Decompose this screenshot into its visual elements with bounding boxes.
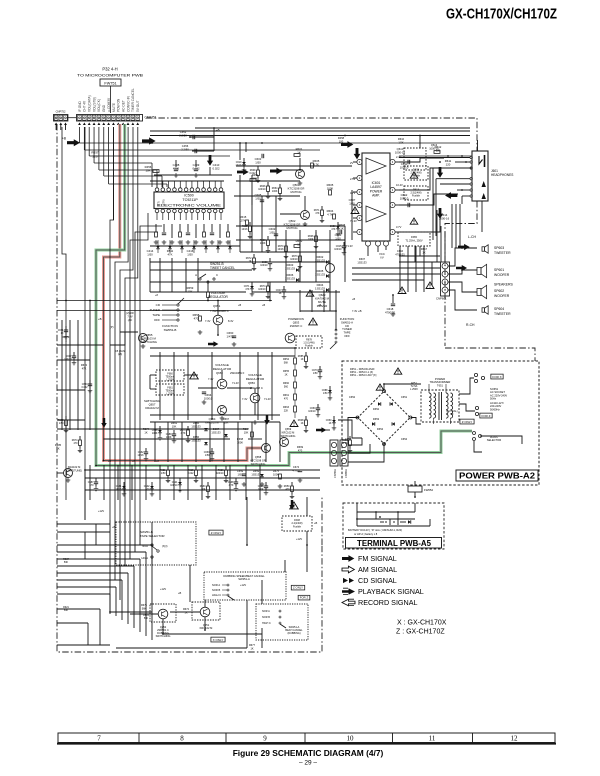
svg-text:CH7 4V: CH7 4V — [83, 100, 87, 112]
svg-text:Z : GX-CH170Z: Z : GX-CH170Z — [396, 629, 445, 636]
svg-text:4.7K: 4.7K — [181, 432, 186, 435]
svg-text:470: 470 — [146, 488, 151, 491]
svg-text:50Hz: 50Hz — [490, 397, 497, 401]
svg-text:10.4V: 10.4V — [396, 183, 403, 187]
svg-text:I/V: I/V — [380, 256, 384, 260]
svg-text:SP603: SP603 — [494, 246, 504, 250]
svg-text:71.4V: 71.4V — [232, 381, 239, 385]
svg-text:47K: 47K — [331, 228, 336, 231]
svg-text:D653: D653 — [373, 417, 380, 421]
svg-text:1K: 1K — [144, 430, 147, 434]
svg-text:100: 100 — [339, 139, 344, 143]
svg-text:100/10: 100/10 — [170, 484, 178, 487]
svg-text:C652: C652 — [349, 395, 356, 399]
svg-text:7: 7 — [97, 735, 101, 743]
svg-text:R610: R610 — [398, 137, 405, 141]
svg-text:7.4V: 7.4V — [205, 319, 211, 323]
svg-text:TAPE SELECTOR: TAPE SELECTOR — [140, 534, 165, 538]
svg-text:2.5V: 2.5V — [350, 177, 356, 181]
svg-text:0.022: 0.022 — [213, 167, 220, 171]
svg-text:PLAYBACK SIGNAL: PLAYBACK SIGNAL — [358, 587, 424, 596]
svg-text:100K: 100K — [152, 432, 158, 435]
svg-text:71.3V: 71.3V — [346, 244, 353, 248]
svg-text:50K: 50K — [64, 609, 69, 612]
svg-text:C: C — [216, 273, 218, 277]
svg-text:4.7K: 4.7K — [327, 213, 333, 217]
svg-text:BATTERY DC12V [ “D” size ( UM/: BATTERY DC12V [ “D” size ( UM/SUM-1, R20… — [348, 528, 402, 532]
svg-text:560: 560 — [284, 385, 289, 388]
svg-text:56K: 56K — [284, 361, 289, 364]
svg-text:4.7V: 4.7V — [350, 191, 356, 195]
svg-text:F665: F665 — [411, 235, 417, 239]
svg-text:FW751: FW751 — [104, 81, 116, 85]
svg-text:+B: +B — [98, 317, 102, 321]
svg-text:AMP.: AMP. — [372, 194, 380, 198]
svg-text:Q659: Q659 — [285, 427, 292, 431]
svg-text:CNB651: CNB651 — [345, 468, 348, 478]
svg-text:TIMER CANCEL: TIMER CANCEL — [131, 88, 135, 112]
svg-text:470: 470 — [298, 448, 303, 452]
svg-text:SPEAKERS: SPEAKERS — [494, 283, 514, 287]
svg-text:+B: +B — [352, 298, 355, 301]
svg-text:100K: 100K — [260, 242, 266, 245]
svg-text:71.3V: 71.3V — [350, 219, 357, 223]
svg-text:1/50: 1/50 — [313, 372, 318, 375]
svg-text:D651 – D654 0-34/7 [X]: D651 – D654 0-34/7 [X] — [350, 374, 377, 377]
svg-text:10K: 10K — [201, 488, 206, 491]
svg-text:100/10: 100/10 — [216, 472, 224, 475]
svg-text:FW652: FW652 — [424, 488, 433, 492]
svg-text:220: 220 — [92, 154, 97, 158]
svg-text:R617: R617 — [421, 247, 428, 251]
svg-text:1/50: 1/50 — [255, 161, 261, 165]
svg-text:1K: 1K — [422, 250, 425, 254]
svg-text:T.F: T.F — [450, 413, 454, 416]
svg-text:100/10: 100/10 — [334, 248, 342, 251]
svg-text:POWER/ION: POWER/ION — [288, 317, 304, 321]
svg-text:Q853: Q853 — [248, 381, 255, 385]
svg-text:+12V: +12V — [98, 509, 104, 513]
svg-text:R458: R458 — [338, 136, 345, 140]
svg-text:–: – — [444, 280, 446, 284]
svg-text:2SD667-C: 2SD667-C — [290, 324, 303, 328]
svg-text:u-COM3V: u-COM3V — [107, 97, 111, 112]
svg-text:Fusible: Fusible — [412, 175, 421, 178]
svg-text:Z ONLY: Z ONLY — [293, 586, 303, 590]
svg-text:4.7K: 4.7K — [229, 484, 234, 487]
svg-text:+B: +B — [62, 137, 66, 141]
svg-text:SWITCHING: SWITCHING — [251, 462, 266, 466]
svg-text:7.4V: 7.4V — [242, 397, 248, 401]
svg-text:3.7V: 3.7V — [396, 225, 402, 229]
svg-text:SWITCHING: SWITCHING — [281, 434, 296, 438]
svg-text:NOR A: NOR A — [262, 610, 270, 613]
svg-text:7.4V: 7.4V — [127, 314, 133, 318]
svg-text:TAPE: TAPE — [152, 313, 160, 317]
svg-text:(AC: (AC — [128, 318, 133, 322]
svg-text:(23): (23) — [118, 353, 122, 356]
svg-text:71.4V: 71.4V — [264, 397, 271, 401]
svg-text:(X)(I): (X)(I) — [162, 545, 168, 548]
svg-text:C616: C616 — [397, 249, 404, 253]
svg-text:Q653: Q653 — [293, 321, 300, 325]
svg-text:2.2/50: 2.2/50 — [179, 134, 187, 138]
svg-text:SW251-A: SW251-A — [238, 577, 250, 581]
svg-text:R674: R674 — [143, 427, 150, 431]
svg-text:X : GX-CH170X: X : GX-CH170X — [397, 620, 447, 627]
svg-text:9: 9 — [263, 735, 267, 743]
svg-text:C654: C654 — [401, 437, 408, 441]
svg-text:1SS133: 1SS133 — [357, 260, 367, 264]
svg-text:8: 8 — [180, 735, 184, 743]
svg-text:CD SIGNAL: CD SIGNAL — [358, 576, 397, 585]
svg-text:ELECTRONIC VOLUME: ELECTRONIC VOLUME — [157, 203, 221, 208]
svg-text:C651: C651 — [401, 395, 408, 399]
svg-text:Fusible: Fusible — [305, 345, 313, 348]
svg-text:10/16: 10/16 — [278, 248, 285, 251]
svg-text:R685: R685 — [55, 443, 62, 447]
svg-text:D652: D652 — [373, 407, 380, 411]
svg-text:HIGH: HIGH — [142, 556, 149, 560]
svg-text:CNP651: CNP651 — [334, 468, 337, 478]
svg-text:1K: 1K — [250, 647, 253, 650]
svg-text:100/10: 100/10 — [204, 397, 213, 401]
svg-text:+B: +B — [262, 304, 265, 307]
svg-text:IF GND: IF GND — [78, 101, 82, 112]
svg-text:– 29 –: – 29 – — [299, 760, 317, 767]
svg-text:WOOFER: WOOFER — [494, 273, 510, 277]
svg-text:+: + — [444, 264, 446, 268]
svg-text:D607: D607 — [359, 257, 366, 261]
svg-text:0.022: 0.022 — [82, 386, 89, 389]
svg-text:SELECTOR: SELECTOR — [487, 438, 501, 442]
svg-text:HIGH C: HIGH C — [212, 593, 221, 597]
svg-text:R669: R669 — [297, 445, 304, 449]
svg-text:10K: 10K — [172, 424, 177, 428]
svg-text:CONVC-IN: CONVC-IN — [126, 96, 130, 112]
svg-text:R672: R672 — [81, 363, 88, 367]
svg-text:470: 470 — [74, 442, 79, 445]
svg-text:1K: 1K — [56, 446, 59, 450]
svg-text:22K: 22K — [284, 409, 289, 412]
svg-text:50K: 50K — [64, 561, 69, 564]
svg-text:100/10: 100/10 — [258, 288, 266, 291]
svg-text:470: 470 — [286, 488, 291, 491]
svg-text:VOL(CK): VOL(CK) — [97, 99, 101, 112]
svg-text:12: 12 — [511, 735, 519, 743]
svg-text:KRA102 M: KRA102 M — [145, 406, 159, 410]
svg-text:47K: 47K — [315, 212, 320, 215]
svg-text:Z ONLY: Z ONLY — [462, 420, 473, 424]
svg-text:CNP752: CNP752 — [56, 110, 66, 114]
svg-text:C674: C674 — [293, 465, 300, 469]
svg-text:47K: 47K — [245, 288, 250, 291]
svg-text:Figure 29 SCHEMATIC DIAGRAM (4: Figure 29 SCHEMATIC DIAGRAM (4/7) — [233, 748, 384, 758]
svg-text:TC9211P: TC9211P — [182, 198, 198, 202]
svg-text:TWEETER: TWEETER — [494, 312, 511, 316]
svg-text:REGULATOR: REGULATOR — [208, 295, 228, 299]
svg-text:NOR B: NOR B — [212, 588, 220, 592]
svg-text:SW651-B: SW651-B — [164, 328, 177, 332]
svg-text:1SS133: 1SS133 — [285, 267, 295, 271]
svg-text:1K: 1K — [284, 373, 287, 376]
svg-text:Z ONLY: Z ONLY — [211, 531, 222, 535]
svg-text:0.022: 0.022 — [188, 472, 195, 475]
svg-text:(P): (P) — [110, 325, 114, 329]
svg-text:10/16: 10/16 — [236, 164, 243, 167]
svg-text:KMPT(TUNE): KMPT(TUNE) — [66, 468, 82, 472]
svg-text:HEADPHONES: HEADPHONES — [491, 173, 513, 177]
svg-text:1/50: 1/50 — [323, 392, 328, 395]
svg-text:1K: 1K — [329, 422, 332, 425]
svg-text:FOR X: FOR X — [492, 375, 501, 379]
svg-text:4.7K: 4.7K — [343, 442, 348, 445]
svg-text:+B: +B — [216, 128, 220, 132]
svg-text:+B: +B — [314, 521, 318, 525]
svg-text:KRC102 M: KRC102 M — [282, 430, 295, 434]
svg-text:+: + — [444, 288, 446, 292]
svg-text:CNP601: CNP601 — [436, 297, 447, 301]
svg-text:1K: 1K — [301, 422, 304, 425]
svg-text:100/10: 100/10 — [290, 258, 298, 261]
svg-text:+12V: +12V — [160, 587, 166, 591]
svg-text:10/16: 10/16 — [138, 454, 145, 457]
svg-text:FM SIGNAL: FM SIGNAL — [358, 554, 397, 563]
svg-text:+B: +B — [112, 525, 116, 529]
svg-text:L 250V: L 250V — [410, 388, 418, 391]
svg-text:GX-CH170X/CH170Z: GX-CH170X/CH170Z — [446, 6, 557, 23]
svg-text:R-CH: R-CH — [466, 323, 475, 327]
svg-text:100/10: 100/10 — [258, 188, 266, 191]
svg-text:10K: 10K — [146, 169, 151, 173]
svg-text:50/60Hz: 50/60Hz — [490, 407, 500, 411]
svg-text:OFF: OFF — [154, 318, 160, 322]
svg-text:+12V: +12V — [240, 583, 246, 587]
svg-text:MUTE: MUTE — [112, 103, 116, 112]
svg-text:SWITCHING: SWITCHING — [141, 340, 157, 344]
svg-text:FOR Z: FOR Z — [300, 596, 309, 600]
svg-text:GND: GND — [102, 104, 106, 112]
svg-text:2V: 2V — [350, 161, 353, 165]
svg-text:SP602: SP602 — [494, 289, 504, 293]
svg-text:2SD468 C: 2SD468 C — [250, 386, 263, 390]
svg-text:100K: 100K — [166, 436, 172, 439]
svg-text:R667: R667 — [223, 417, 230, 421]
svg-text:470: 470 — [90, 484, 95, 487]
svg-text:7.4V: 7.4V — [352, 310, 357, 313]
svg-text:100/10: 100/10 — [260, 264, 268, 267]
svg-text:TO MICROCOMPUTER PWB: TO MICROCOMPUTER PWB — [77, 72, 143, 77]
svg-text:0.022: 0.022 — [250, 172, 257, 175]
svg-text:5V OUT: 5V OUT — [136, 100, 140, 112]
svg-text:D654: D654 — [377, 427, 384, 431]
svg-text:NOR A: NOR A — [212, 583, 220, 587]
svg-text:2.2/50: 2.2/50 — [181, 148, 189, 152]
svg-text:VOL(STB): VOL(STB) — [92, 97, 96, 112]
svg-text:WOOFER: WOOFER — [494, 294, 510, 298]
svg-text:100K: 100K — [258, 488, 264, 491]
svg-text:KRC103 M: KRC103 M — [205, 421, 219, 425]
svg-text:1000-16: 1000-16 — [429, 146, 439, 150]
svg-text:Q651: Q651 — [213, 304, 221, 308]
svg-text:P32 4-H: P32 4-H — [102, 67, 117, 72]
svg-text:Q658: Q658 — [255, 455, 262, 459]
svg-text:10/16: 10/16 — [116, 488, 123, 491]
svg-text:L 250V: L 250V — [166, 378, 174, 381]
svg-text:Fusible: Fusible — [293, 525, 302, 528]
svg-text:KTC3198 GR: KTC3198 GR — [250, 458, 266, 462]
svg-text:CNP751: CNP751 — [145, 116, 157, 120]
svg-text:1/2K: 1/2K — [398, 140, 404, 144]
svg-text:1/50: 1/50 — [205, 454, 210, 457]
svg-text:56K: 56K — [142, 607, 147, 610]
svg-text:TWEET CANCEL: TWEET CANCEL — [210, 266, 235, 270]
svg-text:8.4V: 8.4V — [228, 319, 234, 323]
svg-text:HIGH C: HIGH C — [262, 622, 271, 625]
svg-text:Q613: Q613 — [431, 143, 438, 147]
svg-text:POWER PWB-A2: POWER PWB-A2 — [459, 472, 536, 481]
svg-text:–: – — [444, 272, 446, 276]
svg-text:+B: +B — [178, 591, 182, 595]
svg-text:470: 470 — [284, 397, 289, 400]
svg-text:470: 470 — [194, 317, 199, 321]
svg-text:TWEETER: TWEETER — [494, 251, 511, 255]
svg-text:1SS133: 1SS133 — [285, 277, 295, 281]
svg-text:SP604: SP604 — [494, 307, 504, 311]
svg-text:POW ON: POW ON — [117, 98, 121, 112]
svg-text:10K: 10K — [244, 430, 249, 434]
svg-text:11: 11 — [429, 735, 436, 743]
svg-text:10: 10 — [347, 735, 355, 743]
svg-text:4700/35: 4700/35 — [395, 252, 405, 256]
svg-text:OFF: OFF — [344, 334, 350, 338]
svg-text:56K: 56K — [144, 617, 149, 620]
svg-text:X ONLY: X ONLY — [213, 638, 224, 642]
svg-text:MUTING: MUTING — [286, 226, 297, 230]
svg-text:27K: 27K — [241, 219, 246, 223]
svg-text:1/50: 1/50 — [161, 472, 166, 475]
svg-text:120: 120 — [446, 163, 451, 167]
svg-text:47K: 47K — [82, 366, 87, 370]
svg-text:(DUBBING): (DUBBING) — [287, 632, 300, 635]
svg-text:1/50: 1/50 — [147, 253, 153, 257]
svg-text:L 250V: L 250V — [166, 392, 174, 395]
svg-text:+B: +B — [238, 304, 241, 307]
svg-text:7.4V: 7.4V — [210, 310, 215, 313]
svg-text:1/50: 1/50 — [59, 422, 64, 425]
svg-text:FOR Z: FOR Z — [482, 414, 491, 418]
svg-text:AC-DET: AC-DET — [121, 100, 125, 112]
svg-text:NOR B: NOR B — [262, 616, 270, 619]
svg-text:Fusible: Fusible — [412, 195, 421, 198]
svg-text:L-CH: L-CH — [468, 235, 476, 239]
svg-text:or HP-2 ] battery x 8: or HP-2 ] battery x 8 — [354, 532, 378, 536]
svg-text:100K: 100K — [272, 190, 278, 193]
svg-text:2SD468 C: 2SD468 C — [215, 309, 230, 313]
svg-text:10/16: 10/16 — [242, 228, 249, 231]
svg-text:+B: +B — [358, 309, 362, 313]
svg-text:KRA102 M: KRA102 M — [68, 465, 81, 469]
svg-text:+12V: +12V — [296, 537, 302, 541]
svg-text:1/50: 1/50 — [349, 202, 355, 206]
svg-text:1/50: 1/50 — [187, 253, 193, 257]
svg-text:T1.25A-L 250V: T1.25A-L 250V — [405, 238, 423, 242]
svg-text:+B: +B — [318, 304, 321, 307]
svg-text:A: A — [195, 273, 197, 277]
svg-text:VOL(DATA): VOL(DATA) — [88, 95, 92, 112]
svg-text:7.4V: 7.4V — [208, 377, 214, 381]
svg-text:TUNER: TUNER — [150, 308, 161, 312]
svg-text:SP601: SP601 — [494, 268, 504, 272]
svg-text:1SS133: 1SS133 — [315, 273, 325, 277]
svg-text:MUTING: MUTING — [290, 190, 301, 194]
svg-text:47K: 47K — [168, 253, 173, 257]
svg-text:TERMINAL PWB-A5: TERMINAL PWB-A5 — [357, 539, 432, 548]
svg-text:KRC102 M: KRC102 M — [200, 626, 213, 630]
svg-text:1SS133: 1SS133 — [211, 430, 221, 434]
svg-text:AM SIGNAL: AM SIGNAL — [358, 565, 397, 574]
svg-text:C456: C456 — [182, 144, 189, 148]
svg-text:1K: 1K — [301, 358, 304, 361]
svg-text:T651: T651 — [437, 383, 444, 387]
svg-text:2SD238A F: 2SD238A F — [230, 371, 245, 375]
svg-text:100/10: 100/10 — [308, 410, 316, 413]
svg-text:C452: C452 — [180, 130, 187, 134]
svg-text:RECORD SIGNAL: RECORD SIGNAL — [358, 598, 418, 607]
svg-text:(2)UW: (2)UW — [126, 311, 134, 315]
